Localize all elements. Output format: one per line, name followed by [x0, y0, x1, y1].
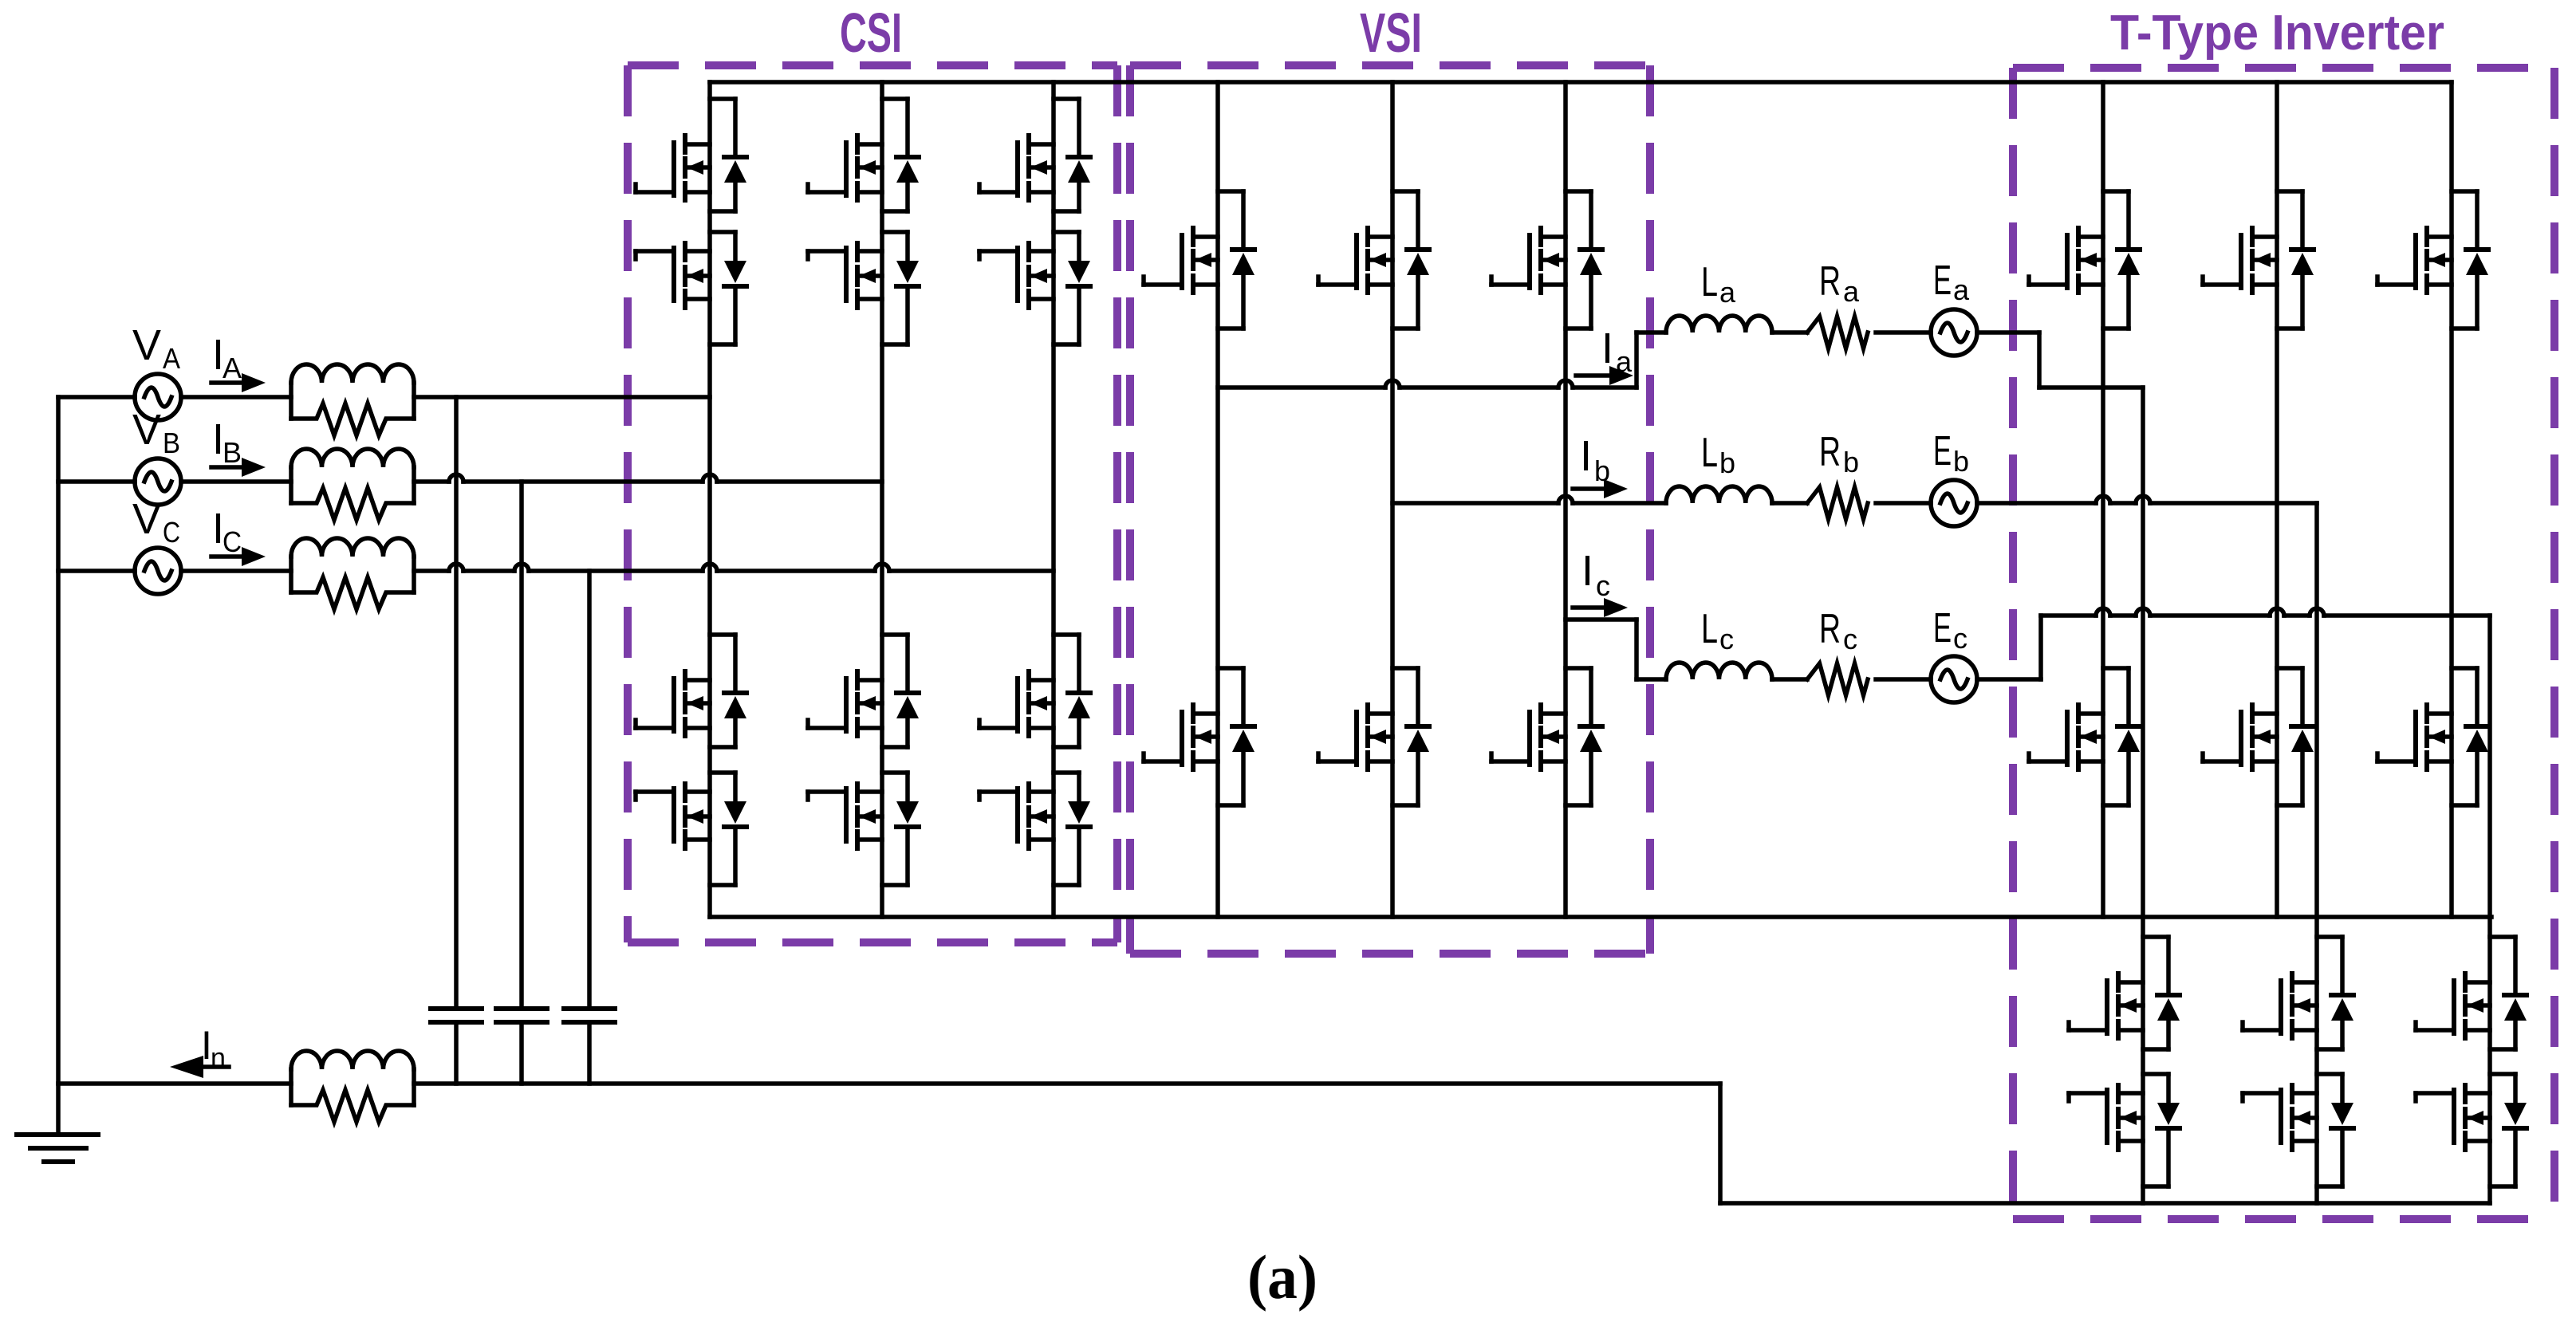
arrow IA: [211, 380, 242, 385]
wire: cap B to neutral: [519, 1022, 524, 1084]
wire: T-type neutral branch b: [2314, 503, 2319, 1203]
wire: filter cap column phase B: [519, 482, 524, 1009]
wire: phase c jog up: [2038, 616, 2043, 679]
wire: diode branch of CSI S1b (top upper): [882, 99, 908, 211]
wire: diode branch of CSI S1a (top upper): [710, 99, 735, 211]
wire: filter cap column phase A: [454, 397, 459, 1009]
wire: phase c to Lc: [1637, 677, 1666, 682]
wire: top DC rail: [710, 80, 2452, 85]
diode T-type clamp lower a (antiparallel, pointing down): [2157, 1103, 2180, 1128]
wire: phase a jog up: [1634, 332, 1639, 388]
mosfet T-type clamp upper c: [2416, 974, 2490, 1038]
wire: diode branch of CSI S3c (bottom upper): [1054, 635, 1079, 747]
arrow IC: [211, 554, 242, 559]
mosfet T-type top switch b: [2203, 228, 2277, 293]
diode CSI S4a (bottom lower) (antiparallel, pointing down): [724, 801, 746, 827]
wire: diode branch of CSI S2a (top lower): [710, 232, 735, 344]
diode CSI S4c (bottom lower) (antiparallel, pointing down): [1068, 801, 1090, 827]
wire: phase a to La: [1637, 330, 1666, 335]
mosfet T-type clamp upper a: [2069, 974, 2143, 1038]
resistor Ra: [1807, 317, 1868, 348]
wire: bottom DC rail: [710, 915, 2491, 919]
resistor Rb: [1807, 487, 1868, 519]
mosfet CSI S4c (bottom lower): [979, 784, 1054, 848]
svg-text:B: B: [163, 427, 180, 459]
voltage source Ea: [1931, 309, 1977, 356]
wire: Rc to Ec: [1876, 677, 1931, 682]
wire: Rb to Eb: [1876, 501, 1931, 506]
diode T-type top switch b (antiparallel, pointing up): [2291, 250, 2314, 275]
svg-text:c: c: [1719, 623, 1734, 655]
diode VSI bottom switch c (antiparallel, pointing up): [1580, 726, 1602, 752]
wire: cap A to neutral: [454, 1022, 459, 1084]
svg-text:C: C: [223, 525, 242, 558]
wire: VSI leg a vertical: [1215, 82, 1220, 917]
wire: diode branch of T-type bottom switch c: [2452, 668, 2477, 805]
diode CSI S3c (bottom upper) (antiparallel, pointing up): [1068, 693, 1090, 718]
mosfet CSI S3a (bottom upper): [636, 671, 710, 736]
mosfet CSI S4b (bottom lower): [808, 784, 882, 848]
wire: diode branch of T-type clamp lower c: [2490, 1074, 2515, 1186]
diode CSI S3b (bottom upper) (antiparallel, pointing up): [896, 693, 919, 718]
wire: phase B from bus to source: [58, 479, 135, 484]
svg-text:V: V: [132, 406, 161, 454]
svg-text:I: I: [1581, 547, 1593, 595]
wire: phase C source to filter: [181, 569, 291, 573]
mosfet T-type clamp lower c: [2416, 1085, 2490, 1150]
diode VSI top switch c (antiparallel, pointing up): [1580, 250, 1602, 275]
mosfet T-type top switch a: [2029, 228, 2103, 293]
mosfet T-type bottom switch b: [2203, 705, 2277, 769]
mosfet VSI bottom switch c: [1491, 705, 1566, 769]
wire: neutral drop: [1718, 1084, 1723, 1203]
svg-text:VSI: VSI: [1360, 2, 1422, 64]
diode CSI S1b (top upper) (antiparallel, pointing up): [896, 157, 919, 183]
capacitor Cc: [564, 1009, 615, 1022]
mosfet CSI S2a (top lower): [636, 243, 710, 308]
mosfet CSI S1b (top upper): [808, 136, 882, 200]
svg-text:V: V: [132, 495, 161, 543]
diode CSI S4b (bottom lower) (antiparallel, pointing down): [896, 801, 919, 827]
wire: diode branch of T-type top switch b: [2277, 191, 2302, 329]
wire: diode branch of CSI S4c (bottom lower): [1054, 773, 1079, 885]
wire: diode branch of CSI S4a (bottom lower): [710, 773, 735, 885]
svg-text:a: a: [1953, 273, 1970, 306]
wire: T-type leg b vertical: [2275, 82, 2279, 917]
diode CSI S3a (bottom upper) (antiparallel, pointing up): [724, 693, 746, 718]
capacitor Ca: [431, 1009, 482, 1022]
svg-text:A: A: [163, 342, 180, 375]
mosfet CSI S3c (bottom upper): [979, 671, 1054, 736]
CSI section dashed box: [628, 65, 1117, 942]
diode VSI top switch a (antiparallel, pointing up): [1232, 250, 1255, 275]
VSI section dashed box: [1130, 65, 1650, 954]
voltage source VB: [135, 458, 181, 505]
wire: La to Ra: [1772, 330, 1807, 335]
svg-text:a: a: [1719, 276, 1736, 309]
wire: Lc to Rc: [1772, 677, 1807, 682]
mosfet T-type top switch c: [2377, 228, 2452, 293]
arrow IB: [211, 465, 242, 470]
wire: diode branch of T-type clamp upper c: [2490, 937, 2515, 1049]
svg-text:T-Type Inverter: T-Type Inverter: [2110, 6, 2444, 61]
voltage source Ec: [1931, 656, 1977, 702]
wire: phase c jog down: [1634, 620, 1639, 679]
wire: CSI leg c vertical: [1051, 82, 1056, 917]
svg-text:B: B: [223, 436, 242, 469]
mosfet CSI S1a (top upper): [636, 136, 710, 200]
wire: left vertical bus: [56, 397, 61, 1135]
diode T-type top switch c (antiparallel, pointing up): [2466, 250, 2488, 275]
diode CSI S2c (top lower) (antiparallel, pointing down): [1068, 261, 1090, 286]
svg-text:c: c: [1596, 569, 1610, 602]
mosfet T-type clamp lower b: [2243, 1085, 2317, 1150]
mosfet T-type bottom switch c: [2377, 705, 2452, 769]
svg-text:E: E: [1933, 605, 1952, 651]
wire: diode branch of VSI top switch c: [1566, 191, 1591, 329]
wire: diode branch of VSI bottom switch a: [1218, 668, 1243, 805]
voltage source Eb: [1931, 480, 1977, 526]
mosfet CSI S2b (top lower): [808, 243, 882, 308]
resistor Rc: [1807, 663, 1868, 695]
mosfet VSI bottom switch b: [1318, 705, 1392, 769]
mosfet VSI top switch b: [1318, 228, 1392, 293]
diode CSI S2b (top lower) (antiparallel, pointing down): [896, 261, 919, 286]
diode CSI S1a (top upper) (antiparallel, pointing up): [724, 157, 746, 183]
wire: diode branch of CSI S2c (top lower): [1054, 232, 1079, 344]
mosfet T-type clamp upper b: [2243, 974, 2317, 1038]
wire: VSI leg c vertical: [1563, 82, 1568, 917]
wire: neutral from bus: [58, 1081, 291, 1086]
arrow Ia: [1576, 373, 1609, 378]
mosfet CSI S4a (bottom lower): [636, 784, 710, 848]
mosfet T-type clamp lower a: [2069, 1085, 2143, 1150]
filter inductor-resistor phase C: [291, 538, 414, 609]
svg-text:A: A: [223, 352, 242, 384]
svg-text:E: E: [1933, 258, 1952, 304]
svg-text:I: I: [1601, 325, 1613, 372]
wire: neutral line (net N): [414, 1081, 1720, 1086]
svg-text:b: b: [1719, 447, 1735, 479]
wire: phase A source to filter: [181, 395, 291, 399]
mosfet CSI S3b (bottom upper): [808, 671, 882, 736]
wire: phase a from VSI (node a): [1218, 380, 1637, 388]
diode VSI bottom switch a (antiparallel, pointing up): [1232, 726, 1255, 752]
diode T-type clamp upper b (antiparallel, pointing up): [2331, 995, 2353, 1021]
wire: diode branch of VSI top switch a: [1218, 191, 1243, 329]
diode VSI bottom switch b (antiparallel, pointing up): [1407, 726, 1429, 752]
wire: Ra to Ea: [1876, 330, 1931, 335]
wire: T-type neutral branch a: [2141, 388, 2145, 1203]
svg-text:c: c: [1953, 622, 1967, 655]
wire: phase A from bus to source: [58, 395, 135, 399]
svg-text:b: b: [1843, 446, 1859, 478]
wire: diode branch of VSI top switch b: [1392, 191, 1418, 329]
T-Type section dashed box: [2013, 68, 2554, 1219]
wire: phase c from VSI (node c): [1566, 617, 1637, 622]
svg-text:L: L: [1701, 259, 1718, 305]
voltage source VA: [135, 374, 181, 420]
diode T-type clamp upper c (antiparallel, pointing up): [2504, 995, 2527, 1021]
arrow Ib: [1573, 486, 1604, 491]
svg-text:V: V: [132, 321, 161, 369]
diode T-type clamp upper a (antiparallel, pointing up): [2157, 995, 2180, 1021]
wire: diode branch of T-type clamp lower b: [2317, 1074, 2342, 1186]
wire: CSI leg b vertical: [880, 82, 884, 917]
wire: diode branch of CSI S3b (bottom upper): [882, 635, 908, 747]
wire: Ea to T-type: [1977, 330, 2039, 335]
diode VSI top switch b (antiparallel, pointing up): [1407, 250, 1429, 275]
wire: diode branch of T-type clamp upper a: [2143, 937, 2168, 1049]
diode T-type clamp lower c (antiparallel, pointing down): [2504, 1103, 2527, 1128]
wire: T-type leg c vertical: [2449, 82, 2454, 917]
svg-text:L: L: [1701, 430, 1718, 476]
wire: phase a into T-type leg a: [2039, 385, 2143, 390]
diode CSI S2a (top lower) (antiparallel, pointing down): [724, 261, 746, 286]
svg-text:a: a: [1843, 275, 1860, 308]
wire: diode branch of T-type clamp lower a: [2143, 1074, 2168, 1186]
ground: [17, 1135, 98, 1162]
inductor Lb: [1666, 486, 1772, 503]
diode T-type top switch a (antiparallel, pointing up): [2117, 250, 2140, 275]
wire: phase a jog down: [2037, 332, 2042, 388]
svg-text:(a): (a): [1247, 1242, 1318, 1312]
svg-text:C: C: [163, 516, 180, 549]
wire: diode branch of T-type bottom switch b: [2277, 668, 2302, 805]
wire: diode branch of CSI S2b (top lower): [882, 232, 908, 344]
wire: T-type leg a vertical: [2101, 82, 2105, 917]
wire: diode branch of T-type top switch a: [2103, 191, 2129, 329]
svg-text:E: E: [1933, 428, 1952, 474]
mosfet VSI top switch c: [1491, 228, 1566, 293]
svg-text:I: I: [1580, 432, 1592, 480]
mosfet VSI bottom switch a: [1144, 705, 1218, 769]
wire: T-type neutral branch c: [2487, 616, 2492, 1203]
diode T-type bottom switch b (antiparallel, pointing up): [2291, 726, 2314, 752]
filter inductor-resistor neutral: [291, 1051, 414, 1122]
wire: diode branch of CSI S1c (top upper): [1054, 99, 1079, 211]
svg-text:b: b: [1953, 445, 1969, 478]
wire: phase A to CSI leg a (node A): [414, 395, 710, 399]
wire: phase b from VSI (node b): [1392, 496, 1666, 503]
capacitor Cb: [496, 1009, 547, 1022]
wire: cap C to neutral: [587, 1022, 592, 1084]
diode T-type bottom switch c (antiparallel, pointing up): [2466, 726, 2488, 752]
inductor La: [1666, 316, 1772, 332]
wire: diode branch of T-type bottom switch a: [2103, 668, 2129, 805]
wire: diode branch of T-type top switch c: [2452, 191, 2477, 329]
mosfet VSI top switch a: [1144, 228, 1218, 293]
diode T-type bottom switch a (antiparallel, pointing up): [2117, 726, 2140, 752]
diode CSI S1c (top upper) (antiparallel, pointing up): [1068, 157, 1090, 183]
wire: CSI leg a vertical: [707, 82, 712, 917]
diode T-type clamp lower b (antiparallel, pointing down): [2331, 1103, 2353, 1128]
voltage source VC: [135, 548, 181, 594]
wire: phase C from bus to source: [58, 569, 135, 573]
svg-text:L: L: [1701, 606, 1718, 652]
svg-text:R: R: [1819, 258, 1841, 305]
wire: diode branch of T-type clamp upper b: [2317, 937, 2342, 1049]
svg-text:CSI: CSI: [840, 2, 902, 64]
svg-text:R: R: [1819, 606, 1841, 652]
filter inductor-resistor phase A: [291, 364, 414, 435]
wire: diode branch of VSI bottom switch b: [1392, 668, 1418, 805]
wire: phase B to CSI leg b (node B): [414, 474, 882, 482]
wire: VSI leg b vertical: [1390, 82, 1395, 917]
wire: phase C to CSI leg c (node C): [414, 564, 1054, 571]
wire: filter cap column phase C: [587, 571, 592, 1009]
wire: Ec to T-type: [1977, 677, 2041, 682]
wire: diode branch of CSI S3a (bottom upper): [710, 635, 735, 747]
arrow In (pointing left): [203, 1064, 229, 1069]
wire: phase c into T-type leg c: [2041, 608, 2490, 616]
wire: diode branch of VSI bottom switch c: [1566, 668, 1591, 805]
mosfet CSI S2c (top lower): [979, 243, 1054, 308]
mosfet T-type bottom switch a: [2029, 705, 2103, 769]
mosfet CSI S1c (top upper): [979, 136, 1054, 200]
wire: diode branch of CSI S4b (bottom lower): [882, 773, 908, 885]
inductor Lc: [1666, 663, 1772, 679]
wire: phase B source to filter: [181, 479, 291, 484]
arrow Ic: [1573, 605, 1604, 610]
svg-text:R: R: [1819, 429, 1841, 475]
wire: Lb to Rb: [1772, 501, 1807, 506]
wire: Eb into T-type leg b: [1977, 496, 2317, 503]
filter inductor-resistor phase B: [291, 449, 414, 520]
svg-text:c: c: [1843, 623, 1857, 655]
wire: neutral bottom run to T-type: [1720, 1201, 2490, 1206]
